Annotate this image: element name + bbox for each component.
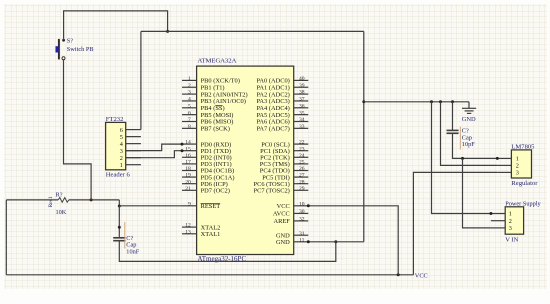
mcu pin 13 XTAL1 stub (182, 233, 197, 235)
svg-text:1: 1 (120, 162, 123, 169)
mcu pin 9 RESET stub (182, 205, 197, 207)
mcu pin 2 PB1 stub (182, 86, 197, 88)
svg-text:29: 29 (299, 186, 305, 192)
svg-text:Power Supply: Power Supply (505, 200, 541, 207)
node pin connection capacitor C1 top (118, 226, 121, 229)
svg-text:4: 4 (120, 141, 123, 148)
mcu pin 21 PD7 stub (182, 189, 197, 191)
mcu pin 31 GND stub (294, 234, 309, 236)
mcu pin 18 PD4 stub (182, 170, 197, 172)
connector J1 pin 2 stub (491, 220, 505, 222)
svg-text:12: 12 (185, 223, 191, 229)
wire ground to regulator pin 2 (441, 102, 498, 166)
svg-text:5: 5 (120, 134, 123, 141)
mcu pin 16 PD2 stub (182, 156, 197, 158)
svg-text:Regulator: Regulator (511, 180, 538, 187)
wire mcu VCC pin 10 to VCC rail (308, 206, 398, 275)
svg-text:3: 3 (188, 90, 191, 96)
svg-text:25: 25 (299, 160, 305, 166)
svg-text:14: 14 (185, 140, 191, 146)
svg-text:4: 4 (188, 97, 191, 103)
svg-text:RESET: RESET (201, 203, 221, 210)
wire capacitor C2 top lead (452, 102, 454, 131)
connector P1 pin 6 stub (126, 129, 141, 131)
svg-text:28: 28 (299, 179, 305, 185)
wire reset node down jog (118, 200, 120, 206)
svg-text:24: 24 (299, 153, 305, 159)
node junction reset tee (118, 205, 121, 208)
svg-text:1: 1 (188, 76, 191, 82)
mcu pin 3 PB2 stub (182, 93, 197, 95)
node pin connection regulator pin 1 (496, 157, 499, 160)
mcu pin 6 PB5 stub (182, 114, 197, 116)
ground symbol bar2 (465, 110, 474, 112)
svg-text:2: 2 (516, 163, 519, 170)
regulator U2 pin 2 stub (497, 164, 511, 166)
svg-text:GND: GND (462, 116, 476, 123)
svg-text:30: 30 (299, 209, 305, 215)
mcu pin 19 PD5 stub (182, 176, 197, 178)
svg-text:15: 15 (185, 146, 191, 152)
mcu pin 4 PB3 stub (182, 100, 197, 102)
svg-text:19: 19 (185, 173, 191, 179)
mcu pin 29 PC7 stub (294, 189, 309, 191)
connector P1 pin 2 stub (126, 157, 141, 159)
svg-text:37: 37 (299, 97, 305, 103)
mcu pin 17 PD3 stub (182, 163, 197, 165)
mcu pin 34 PA6 stub (294, 121, 309, 123)
svg-text:6: 6 (120, 127, 123, 134)
svg-text:PA7 (ADC7): PA7 (ADC7) (256, 126, 289, 133)
svg-text:3: 3 (516, 170, 519, 177)
ground symbol stem (468, 102, 470, 109)
node junction ground return / mcu GND (334, 240, 337, 243)
node pin connection mcu PD0 pin 14 (181, 143, 184, 146)
regulator U2 pin 3 stub (497, 171, 511, 173)
switch S? top terminal (62, 39, 65, 42)
wire regulator pin 3 output to VCC rail (413, 172, 497, 274)
svg-text:PB7 (SCK): PB7 (SCK) (201, 126, 230, 133)
svg-text:36: 36 (299, 103, 305, 109)
svg-text:33: 33 (299, 124, 305, 130)
connector P1 pin 4 stub (126, 143, 141, 145)
switch S? blue actuator (56, 46, 59, 52)
wire mcu GND pin 11 to ground feed (308, 241, 364, 243)
mcu pin 20 PD6 stub (182, 183, 197, 185)
mcu pin 40 PA0 stub (294, 79, 309, 81)
capacitor C2 plate bottom (447, 132, 459, 134)
capacitor C1 plate bottom (113, 240, 125, 242)
svg-text:2: 2 (509, 218, 512, 225)
wire reset net to mcu RESET pin 9 (119, 205, 182, 207)
svg-text:40: 40 (299, 76, 305, 82)
mcu pin 28 PC6 stub (294, 183, 309, 185)
svg-text:10K: 10K (56, 209, 67, 216)
wire top rail horizontal (141, 30, 364, 32)
svg-text:10pF: 10pF (462, 141, 475, 148)
svg-text:Res1: Res1 (48, 196, 54, 207)
svg-text:9: 9 (188, 201, 191, 207)
svg-text:17: 17 (185, 160, 191, 166)
regulator U2 pin 1 stub (497, 157, 511, 159)
wire FT232 pin 3 to mcu PD0 RXD (126, 144, 182, 151)
wire VCC bottom rail (6, 274, 413, 276)
mcu pin 7 PB6 stub (182, 121, 197, 123)
node pin connection mcu GND pin 11 (307, 240, 310, 243)
svg-text:22: 22 (299, 140, 305, 146)
svg-text:LM7805: LM7805 (511, 144, 535, 151)
svg-text:21: 21 (185, 186, 191, 192)
capacitor C2 plate top (447, 129, 459, 131)
svg-text:3: 3 (120, 148, 123, 155)
mcu pin 11 GNDb stub (294, 241, 309, 243)
svg-text:AREF: AREF (273, 218, 290, 225)
svg-text:23: 23 (299, 146, 305, 152)
mcu pin 22 PC0 stub (294, 143, 309, 145)
svg-text:Header 6: Header 6 (106, 172, 131, 179)
svg-text:18: 18 (185, 166, 191, 172)
svg-text:PD7 (OC2): PD7 (OC2) (201, 188, 230, 195)
mcu pin 25 PC3 stub (294, 163, 309, 165)
connector J1 Power Supply body (505, 207, 523, 234)
node junction VCC rail / mcu VCC branch (397, 273, 400, 276)
mcu pin 14 PD0 stub (182, 143, 197, 145)
mcu pin 24 PC2 stub (294, 156, 309, 158)
wire switch top to rail corner (64, 11, 168, 40)
mcu pin 8 PB7 stub (182, 127, 197, 129)
mcu pin 37 PA3 stub (294, 100, 309, 102)
switch S? contact bar (58, 39, 60, 60)
mcu pin 35 PA5 stub (294, 114, 309, 116)
node junction ground feed to supply rail (362, 100, 365, 103)
mcu U1 ATMEGA32A body (197, 66, 294, 254)
svg-text:39: 39 (299, 83, 305, 89)
ground symbol bar3 (467, 112, 471, 114)
svg-text:34: 34 (299, 117, 305, 123)
node pin connection power supply pin 1 (489, 212, 492, 215)
svg-text:11: 11 (299, 237, 305, 243)
mcu pin 10 VCC stub (294, 205, 309, 207)
svg-text:10nF: 10nF (126, 248, 139, 255)
svg-text:27: 27 (299, 173, 305, 179)
wire resistor right lead to reset node (69, 199, 120, 201)
svg-text:XTAL1: XTAL1 (201, 231, 221, 238)
svg-text:S?: S? (67, 37, 74, 44)
svg-text:38: 38 (299, 90, 305, 96)
svg-text:GND: GND (276, 239, 290, 246)
regulator U2 LM7805 body (511, 150, 531, 178)
node junction regulator input branch (461, 157, 464, 160)
mcu pin 23 PC1 stub (294, 150, 309, 152)
svg-text:10: 10 (299, 201, 305, 207)
node junction ground rail / power supply branch (430, 100, 433, 103)
mcu pin 1 PB0 stub (182, 79, 197, 81)
capacitor C1 hint line (124, 222, 126, 249)
svg-text:1: 1 (516, 156, 519, 163)
connector P1 pin 3 stub (126, 150, 141, 152)
svg-text:26: 26 (299, 166, 305, 172)
mcu pin 33 PA7 stub (294, 127, 309, 129)
resistor R? body zigzag (58, 198, 69, 203)
wire FT232 pin 2 to mcu PD1 TXD (126, 151, 182, 158)
ground symbol bar1 (462, 107, 476, 109)
svg-text:AVCC: AVCC (273, 211, 290, 218)
wire switch bottom to reset net (64, 60, 92, 200)
svg-text:2: 2 (188, 83, 191, 89)
wire VCC to resistor left lead (6, 199, 58, 201)
svg-text:VCC: VCC (277, 203, 290, 210)
svg-text:6: 6 (188, 110, 191, 116)
svg-text:VCC: VCC (415, 272, 428, 279)
wire reset net to capacitor C1 (118, 206, 120, 238)
switch S? bottom terminal (62, 57, 65, 60)
wire VCC rail left riser (5, 200, 7, 275)
connector P1 pin 5 stub (126, 136, 141, 138)
svg-text:13: 13 (185, 229, 191, 235)
node junction ground rail / capacitor branch (451, 100, 454, 103)
wire capacitor C1 bottom to ground return (119, 241, 335, 262)
node junction top rail (166, 30, 169, 33)
svg-text:8: 8 (188, 124, 191, 130)
svg-text:FT232: FT232 (106, 116, 124, 123)
connector P1 FT232 body (106, 122, 126, 169)
svg-text:ATMEGA32A: ATMEGA32A (198, 57, 237, 64)
wire rail down to FT232 pin 6 (140, 31, 142, 129)
wire regulator input to power supply pin 3 (463, 158, 491, 228)
mcu pin 39 PA1 stub (294, 86, 309, 88)
svg-text:1: 1 (509, 211, 512, 218)
capacitor C2 hint line (459, 127, 461, 150)
svg-text:32: 32 (299, 217, 305, 223)
svg-text:R?: R? (56, 191, 63, 198)
mcu pin 38 PA2 stub (294, 93, 309, 95)
connector J1 pin 3 stub (491, 227, 505, 229)
mcu pin 5 PB4 stub (182, 107, 197, 109)
mcu pin 12 XTAL2 stub (182, 226, 197, 228)
node pin connection mcu VCC pin 10 (307, 204, 310, 207)
mcu pin 15 PD1 stub (182, 150, 197, 152)
connector J1 pin 1 stub (491, 213, 505, 215)
svg-text:Switch PB: Switch PB (67, 46, 94, 53)
svg-text:31: 31 (299, 231, 305, 237)
wire capacitor C2 bottom lead to regulator pin 1 (453, 133, 498, 158)
wire right vertical ground feed (363, 31, 365, 241)
capacitor C1 plate top (113, 237, 125, 239)
mcu pin 32 AREF stub (294, 220, 309, 222)
svg-text:3: 3 (509, 225, 512, 232)
mcu pin 30 AVCC stub (294, 212, 309, 214)
svg-text:PC7 (TOSC2): PC7 (TOSC2) (254, 188, 290, 195)
node junction switch / reset net (90, 198, 93, 201)
svg-text:16: 16 (185, 153, 191, 159)
connector P1 pin 1 stub (126, 164, 141, 166)
svg-text:2: 2 (120, 155, 123, 162)
mcu pin 36 PA4 stub (294, 107, 309, 109)
svg-text:7: 7 (188, 117, 191, 123)
svg-text:35: 35 (299, 110, 305, 116)
mcu pin 27 PC5 stub (294, 176, 309, 178)
mcu pin 26 PC4 stub (294, 170, 309, 172)
svg-text:5: 5 (188, 103, 191, 109)
svg-text:V IN: V IN (505, 237, 518, 244)
node junction ground rail / regulator branch (439, 100, 442, 103)
wire ground to power supply pin 1 (432, 102, 491, 214)
wire ground rail to GND symbol (364, 101, 469, 103)
svg-text:20: 20 (185, 179, 191, 185)
node pin connection mcu PD1 pin 15 (181, 149, 184, 152)
